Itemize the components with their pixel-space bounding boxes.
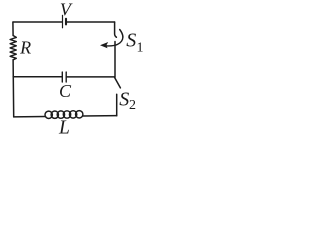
battery V short thick plate [65, 19, 67, 25]
wire left lower (resistor to bottom corner) [12, 60, 15, 117]
svg-text:C: C [59, 81, 72, 101]
switch S1 arrow arc [106, 37, 123, 46]
inductor L coil loop 2 [51, 111, 58, 118]
switch S1 arrowhead [100, 42, 108, 48]
inductor L coil loop 5 [69, 111, 76, 118]
resistor R [10, 36, 16, 60]
wire bottom-left (corner to inductor) [14, 116, 46, 118]
inductor L coil loop 4 [63, 111, 70, 118]
wire middle-left (junction to capacitor) [13, 76, 61, 78]
inductor L coil loop 1 [45, 111, 52, 118]
capacitor C right plate [65, 72, 67, 82]
capacitor C left plate [61, 72, 63, 82]
switch S2 lower terminal stub [116, 94, 118, 116]
switch S2 blade [115, 78, 121, 88]
inductor L coil loop 3 [57, 111, 64, 118]
wire right upper (top corner to switch S1) [115, 22, 117, 37]
switch S1 blade [120, 30, 123, 38]
wire top-left (battery to left corner) [13, 21, 62, 23]
wire bottom-right (inductor to S2 stub corner) [83, 115, 117, 117]
svg-text:S: S [119, 89, 129, 111]
wire right lower (switch S1 to middle junction) [114, 42, 116, 78]
wire left upper (corner to resistor) [12, 22, 14, 36]
wire top-right (battery to right corner) [67, 21, 114, 23]
battery V long plate [62, 15, 64, 27]
svg-text:S: S [126, 30, 136, 52]
svg-text:1: 1 [137, 41, 144, 56]
svg-text:L: L [58, 117, 70, 137]
svg-text:R: R [19, 37, 31, 57]
inductor L coil loop 6 [76, 111, 83, 118]
svg-text:2: 2 [129, 98, 136, 113]
wire middle-right (capacitor to right wire) [67, 76, 115, 78]
